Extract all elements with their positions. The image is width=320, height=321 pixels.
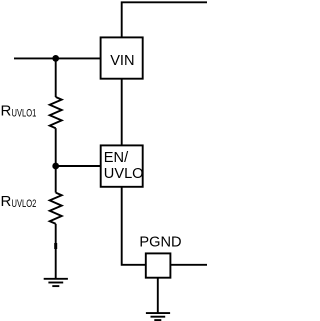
wire segment overlap mark xyxy=(54,243,57,249)
svg-text:UVLO1: UVLO1 xyxy=(12,108,37,120)
ground PGND xyxy=(146,313,170,320)
svg-text:R: R xyxy=(1,193,12,210)
svg-text:UVLO2: UVLO2 xyxy=(12,198,37,210)
node junction divider/EN xyxy=(52,163,59,170)
svg-text:EN/: EN/ xyxy=(104,150,129,166)
pin box PGND xyxy=(146,253,171,277)
svg-text:UVLO: UVLO xyxy=(104,166,144,182)
wire junction down to R_UVLO1 xyxy=(55,58,57,97)
wire node down to R_UVLO2 xyxy=(55,166,57,193)
svg-text:PGND: PGND xyxy=(139,235,181,251)
pin box VIN xyxy=(101,37,143,78)
wire VIN to EN/UVLO xyxy=(121,79,123,146)
wire R_UVLO2 to ground xyxy=(55,224,57,279)
wire node to EN/UVLO pin xyxy=(56,165,101,167)
node junction input/R_UVLO1 xyxy=(52,55,59,62)
resistor R_UVLO1 xyxy=(50,97,62,128)
wire PGND to right net xyxy=(170,264,207,266)
svg-text:R: R xyxy=(1,103,12,120)
resistor R_UVLO2 xyxy=(50,193,62,224)
ground left xyxy=(44,279,68,286)
wire EN/UVLO to PGND node xyxy=(122,187,146,265)
pin label EN/UVLO xyxy=(104,150,144,182)
pin box EN/UVLO xyxy=(101,145,143,186)
wire input to resistor divider xyxy=(14,57,101,59)
wire R_UVLO1 to EN node xyxy=(55,128,57,166)
wire PGND to ground xyxy=(157,278,159,313)
wire top supply rail into VIN xyxy=(122,2,207,37)
svg-text:VIN: VIN xyxy=(110,53,134,69)
